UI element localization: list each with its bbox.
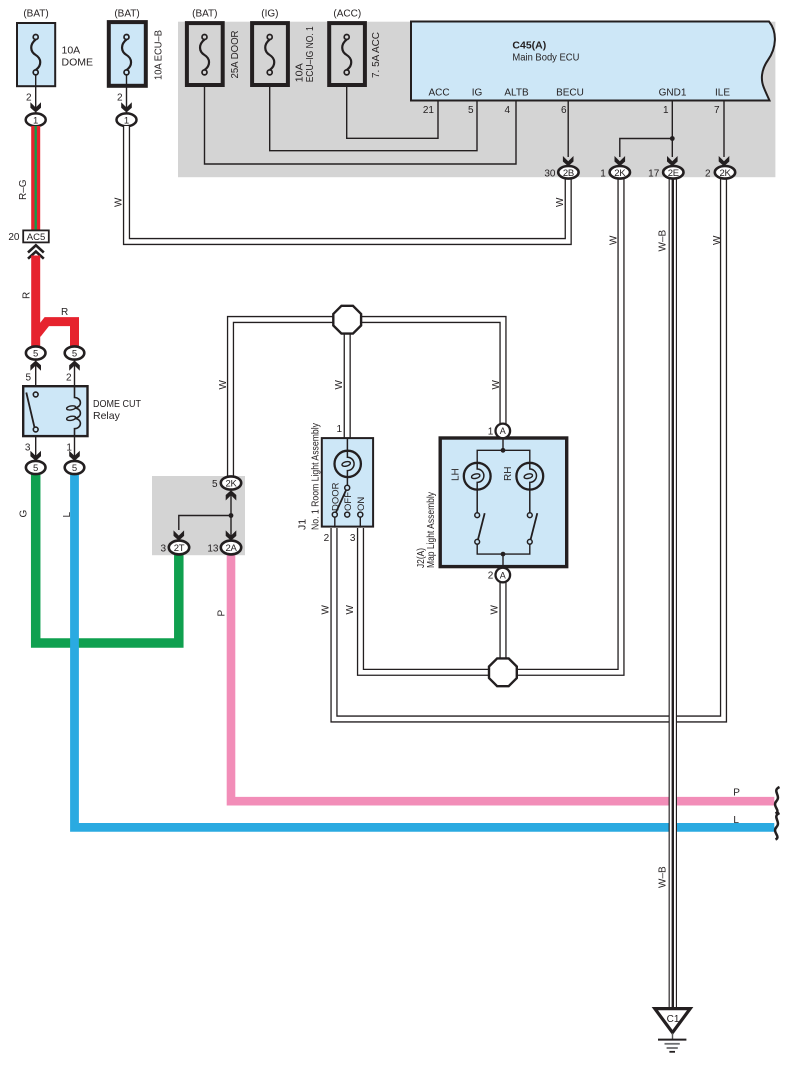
gray harness area top (178, 22, 775, 178)
svg-text:2: 2 (705, 168, 711, 179)
J2 switch LH (475, 513, 485, 544)
svg-text:R: R (61, 307, 68, 318)
junction dot on GND1 wire (670, 136, 675, 141)
svg-text:(BAT): (BAT) (114, 9, 139, 20)
wire R: AC5 down to relay connector 5 (left) (31, 256, 40, 348)
svg-text:5: 5 (33, 463, 38, 474)
J2 internal branch wires top (477, 450, 530, 462)
arrow up relay pin 2 (69, 361, 80, 371)
connector 2E (648, 166, 683, 179)
arrow down into 2T (174, 530, 185, 540)
wire W: junction octagon left branch to 2K(5) (231, 320, 348, 478)
svg-text:5: 5 (72, 463, 77, 474)
arrow down into 2A (226, 530, 237, 540)
svg-text:R–G: R–G (18, 179, 29, 200)
svg-text:2K: 2K (225, 479, 237, 490)
svg-text:7. 5A ACC: 7. 5A ACC (370, 32, 382, 78)
J2 internal wire from pin 1 (502, 439, 504, 451)
svg-text:Main Body ECU: Main Body ECU (512, 52, 579, 64)
gray harness area middle (junction block) (152, 476, 245, 555)
J2 bulb LH (450, 463, 490, 513)
svg-text:W–B: W–B (658, 230, 669, 252)
fuse F2 10A ECU-B (109, 9, 165, 86)
svg-text:5: 5 (72, 349, 77, 360)
J2 connector A pin 2 (488, 568, 510, 583)
wire fuse F2 pin 2 (126, 75, 128, 113)
connector 5 (relay top left) (26, 346, 46, 359)
svg-text:W: W (491, 380, 502, 390)
svg-text:BECU: BECU (556, 88, 584, 99)
svg-text:3: 3 (25, 442, 31, 453)
relay DOME CUT Relay box (23, 386, 141, 436)
svg-text:No. 1 Room Light Assembly: No. 1 Room Light Assembly (310, 422, 322, 530)
svg-text:1: 1 (33, 115, 38, 126)
svg-text:1: 1 (336, 424, 342, 435)
wire fuse F1 pin 2 (35, 75, 37, 113)
continuation brace for P wire (775, 787, 779, 814)
harness continuation chevrons below AC5 (28, 245, 44, 258)
fuse F3 25A DOOR (187, 9, 241, 86)
svg-text:LH: LH (450, 468, 461, 481)
svg-text:W: W (490, 605, 501, 615)
connector 2A (207, 541, 241, 555)
svg-text:ALTB: ALTB (504, 88, 529, 99)
svg-text:G: G (19, 510, 30, 518)
svg-text:W: W (113, 197, 124, 207)
wire relay pin 3 (35, 437, 37, 461)
wire W-B: 2E down to ground C1 (669, 179, 677, 1008)
svg-text:W: W (321, 605, 332, 615)
wire W: J1 pin 2 loop to 2K(2) (334, 179, 724, 719)
J1 switch contact OFF (345, 512, 350, 517)
wire IG fuse to ECU pin IG (270, 87, 477, 151)
svg-text:ACC: ACC (428, 88, 449, 99)
wire ECU pin GND1 stub (671, 101, 673, 157)
svg-text:2: 2 (26, 92, 32, 103)
svg-text:2: 2 (324, 533, 330, 544)
arrow up into 2K(5) (226, 490, 237, 500)
svg-text:ILE: ILE (715, 88, 730, 99)
J2 internal bottom wires (477, 544, 530, 554)
wire W: bottom octagon left to J1 pin 3 (361, 528, 504, 672)
J2 junction dot top (501, 448, 506, 453)
svg-text:(BAT): (BAT) (23, 9, 48, 20)
svg-text:21: 21 (423, 105, 435, 116)
svg-text:DOME CUT: DOME CUT (93, 398, 141, 410)
J2 switch RH (527, 513, 537, 544)
wire P: 2A down and right to page edge (231, 554, 774, 801)
wire junction block vertical (230, 494, 232, 541)
connector AC5 (8, 230, 48, 243)
connector 1 below F2 (117, 113, 137, 126)
svg-text:(BAT): (BAT) (192, 9, 217, 20)
svg-text:6: 6 (561, 105, 567, 116)
svg-text:RH: RH (503, 467, 514, 481)
svg-text:W: W (334, 380, 345, 390)
svg-text:30: 30 (544, 168, 556, 179)
svg-text:J1: J1 (297, 519, 309, 530)
connector 2T (160, 541, 189, 555)
arrow down relay pin 1 (69, 451, 80, 461)
svg-text:(ACC): (ACC) (333, 9, 361, 20)
fuse F1 10A DOME (17, 9, 93, 87)
svg-text:20: 20 (8, 232, 20, 243)
svg-text:W: W (345, 605, 356, 615)
svg-text:ECU–IG NO. 1: ECU–IG NO. 1 (304, 26, 316, 82)
svg-text:L: L (62, 512, 73, 518)
connector 2K pin 1 (600, 166, 630, 179)
wire G: relay pin 3 to 2T (36, 473, 179, 643)
svg-text:P: P (733, 787, 740, 798)
J2 connector A pin 1 (488, 424, 510, 439)
svg-text:Relay: Relay (93, 410, 121, 422)
svg-text:C1: C1 (667, 1014, 680, 1025)
wire relay pin 2 (74, 360, 76, 386)
svg-text:W: W (712, 235, 723, 245)
svg-text:7: 7 (714, 105, 720, 116)
svg-text:AC5: AC5 (27, 232, 45, 243)
svg-text:5: 5 (25, 373, 31, 384)
svg-text:W: W (555, 197, 566, 207)
svg-text:A: A (500, 570, 506, 580)
connector 2K pin 5 in junction block (212, 476, 241, 489)
svg-text:13: 13 (207, 543, 219, 554)
svg-text:W–B: W–B (658, 866, 669, 888)
svg-text:W: W (609, 235, 620, 245)
svg-text:1: 1 (488, 426, 494, 437)
J1 switch common contact (345, 485, 350, 490)
svg-text:1: 1 (663, 105, 669, 116)
svg-text:1: 1 (600, 168, 606, 179)
relay switch contacts (33, 392, 38, 397)
svg-text:ON: ON (356, 497, 367, 511)
connector 5 (relay bottom right) (65, 461, 85, 474)
svg-text:R: R (21, 292, 32, 299)
wire W: J2 pin 2 down to bottom octagon (499, 582, 506, 672)
arrow up relay pin 5 (30, 361, 41, 371)
svg-text:P: P (216, 610, 227, 617)
connector 1 below F1 (26, 113, 46, 126)
junction dot in block (229, 513, 234, 518)
arrow into 2E (667, 156, 678, 166)
fuse F4 10A ECU-IG NO. 1 (252, 9, 316, 86)
svg-text:2B: 2B (563, 168, 574, 179)
connector 2K pin 2 (705, 166, 735, 179)
wire W: junction octagon right to J2 pin 1 (347, 320, 503, 425)
J1 internal wire pin 3 (359, 517, 361, 528)
junction octagon top (333, 306, 361, 334)
connector 2B (544, 166, 578, 179)
svg-text:10A: 10A (62, 45, 81, 57)
wire relay pin 5 (35, 360, 37, 386)
relay coil (66, 386, 80, 437)
wire W: bottom octagon right up to 2K(1) (503, 179, 621, 672)
J1 switch contact ON (358, 512, 363, 517)
svg-text:2: 2 (66, 373, 72, 384)
ground C1 (655, 1009, 690, 1052)
svg-text:L: L (733, 815, 739, 826)
svg-text:5: 5 (33, 349, 38, 360)
svg-text:DOME: DOME (62, 57, 94, 69)
continuation brace for L wire (775, 813, 779, 840)
svg-text:C45(A): C45(A) (512, 40, 546, 52)
wire relay pin 1 (74, 437, 76, 461)
wire ECU pin ILE stub (723, 101, 725, 157)
svg-text:25A DOOR: 25A DOOR (229, 30, 241, 78)
connector 5 (relay bottom left) (26, 461, 46, 474)
relay switch blade (26, 393, 34, 428)
svg-text:Map Light Assembly: Map Light Assembly (425, 491, 437, 568)
arrow down relay pin 3 (30, 451, 41, 461)
svg-text:5: 5 (468, 105, 474, 116)
arrow into 2K(1) (615, 156, 626, 166)
svg-text:4: 4 (504, 105, 510, 116)
svg-text:GND1: GND1 (659, 88, 687, 99)
svg-text:2K: 2K (719, 168, 731, 179)
junction octagon bottom (489, 658, 517, 686)
svg-text:2: 2 (117, 92, 123, 103)
wire ACC fuse to ECU pin ACC (347, 87, 438, 138)
wire L: relay pin 1 down and right to page edge (75, 473, 775, 827)
svg-text:2A: 2A (225, 543, 237, 554)
svg-text:17: 17 (648, 168, 660, 179)
wire W: junction octagon down to J1 pin 1 (344, 320, 351, 438)
J1 No. 1 Room Light Assembly box (297, 422, 374, 544)
J2(A) Map Light Assembly box (415, 438, 567, 568)
J1 internal wire pin 2 (334, 517, 336, 528)
fuse F5 7.5A ACC (329, 9, 382, 86)
svg-text:5: 5 (212, 479, 218, 490)
svg-text:2T: 2T (174, 543, 185, 554)
svg-text:A: A (500, 426, 506, 436)
svg-text:IG: IG (472, 88, 483, 99)
connector 5 (relay top right) (65, 346, 85, 359)
svg-text:OFF: OFF (343, 492, 354, 511)
svg-text:2E: 2E (668, 168, 679, 179)
svg-text:3: 3 (160, 543, 166, 554)
J2 bulb RH (503, 463, 543, 513)
svg-text:10A ECU–B: 10A ECU–B (153, 30, 165, 80)
wire ECU pin BECU stub (567, 101, 569, 157)
J2 internal wire to pin 2 (502, 554, 504, 568)
svg-text:(IG): (IG) (261, 9, 278, 20)
svg-text:DOOR: DOOR (331, 482, 342, 511)
wire R-G: connector 1 to AC5 (31, 126, 40, 230)
svg-text:1: 1 (124, 115, 129, 126)
wire DOOR fuse to ECU pin ALTB (205, 87, 517, 164)
wire junction block branch to 2T (179, 516, 231, 531)
J2 junction dot bottom (501, 552, 506, 557)
op-amp/ECU U1: C45(A) Main Body ECU box with torn right edge (411, 22, 775, 101)
svg-text:W: W (218, 380, 229, 390)
svg-text:2: 2 (488, 571, 494, 582)
wire W: ECU-B connector 1 to 2B (127, 126, 569, 242)
arrow into 2K(2) (719, 156, 730, 166)
wire R: branch to relay connector 5 (right) (37, 322, 75, 347)
wire GND1 branch to 2K (620, 139, 673, 158)
arrow into 2B (563, 156, 574, 166)
J1 switch contact DOOR (332, 512, 337, 517)
svg-text:2K: 2K (614, 168, 626, 179)
svg-text:3: 3 (350, 533, 356, 544)
J1 switch blade to DOOR (336, 491, 346, 513)
J1 bulb (335, 438, 361, 488)
